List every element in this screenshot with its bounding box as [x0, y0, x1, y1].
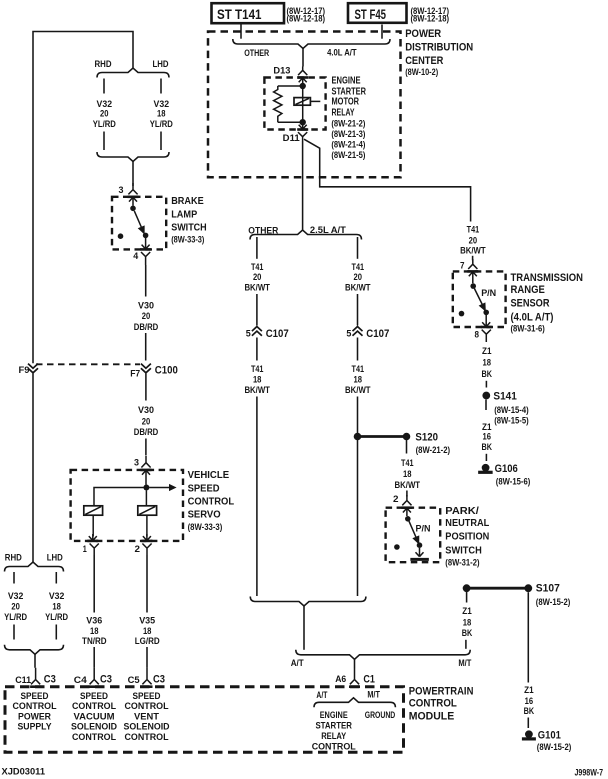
- splice S120 junction dot on T41: [354, 433, 362, 441]
- svg-text:C3: C3: [44, 674, 56, 686]
- svg-text:(8W-31-2): (8W-31-2): [445, 557, 479, 567]
- vent solenoid lead: [146, 515, 148, 536]
- svg-text:C107: C107: [266, 328, 289, 340]
- wire V30 from brake lamp switch to C100: [145, 265, 147, 297]
- wire stub from ST F45: [381, 25, 383, 39]
- servo internal wire to vacuum solenoid: [94, 488, 144, 506]
- svg-text:C5: C5: [128, 675, 140, 685]
- svg-text:P/N: P/N: [481, 288, 496, 298]
- pin 4 female terminal: [141, 252, 150, 265]
- svg-text:2: 2: [393, 494, 399, 504]
- svg-text:BK/WT: BK/WT: [345, 385, 371, 395]
- svg-text:LHD: LHD: [47, 552, 63, 562]
- svg-text:V30: V30: [138, 405, 154, 415]
- wire to PCM pin A6: [354, 659, 356, 668]
- vacuum solenoid lead: [92, 515, 94, 536]
- engine starter motor relay dashed box: [264, 78, 325, 130]
- wire Z1 to G106: [485, 454, 487, 461]
- svg-text:(8W-21-4): (8W-21-4): [331, 140, 365, 150]
- brake lamp switch contact dot (output): [143, 233, 149, 239]
- svg-text:18: 18: [354, 375, 363, 385]
- wire from T41 merge down: [303, 606, 305, 650]
- svg-text:BK: BK: [482, 369, 493, 379]
- svg-text:(8W-12-18): (8W-12-18): [287, 14, 326, 24]
- svg-text:18: 18: [90, 626, 99, 636]
- wire: top-left feed loop from PCM C11 up and over to RHD/LHD split: [33, 32, 133, 364]
- svg-text:18: 18: [157, 109, 166, 119]
- P/N switch arm: [409, 521, 419, 543]
- svg-text:5: 5: [346, 328, 351, 338]
- svg-text:2.5L A/T: 2.5L A/T: [310, 225, 346, 235]
- pin C5 female terminal: [142, 668, 151, 685]
- svg-text:V30: V30: [138, 301, 154, 311]
- wire stub into M/T brace end: [465, 640, 467, 649]
- TRS output contact dot: [483, 310, 489, 316]
- svg-text:CONTROL: CONTROL: [72, 732, 116, 742]
- powertrain control module dashed box: [5, 687, 404, 753]
- pin 4 male terminal arrow: [142, 238, 150, 249]
- svg-text:CONTROL: CONTROL: [312, 742, 356, 752]
- svg-text:BK: BK: [482, 442, 493, 452]
- pin D11 male terminal arrow: [299, 125, 307, 130]
- wire T41 right branch stub: [357, 237, 359, 259]
- wire from D11 to OTHER/2.5L split: [302, 141, 304, 230]
- svg-text:NEUTRAL: NEUTRAL: [445, 518, 490, 529]
- vent solenoid coil: [138, 506, 157, 515]
- relay coil stub lead: [310, 100, 320, 102]
- svg-text:18: 18: [143, 626, 152, 636]
- svg-text:XJD03011: XJD03011: [2, 767, 46, 777]
- servo internal arrow to speed control: [149, 487, 170, 489]
- svg-text:VEHICLE: VEHICLE: [188, 470, 230, 481]
- TRS common contact dot: [470, 283, 476, 289]
- svg-text:RELAY: RELAY: [321, 731, 346, 741]
- svg-text:SOLENOID: SOLENOID: [71, 722, 117, 732]
- pin 2 male terminal arrow: [143, 534, 151, 541]
- pin 8 female terminal: [482, 330, 491, 342]
- svg-text:(4.0L A/T): (4.0L A/T): [511, 311, 554, 323]
- svg-text:SPEED: SPEED: [188, 484, 220, 495]
- merge brace for T41 pair: [250, 597, 366, 607]
- wire T41 below C107 (left): [256, 338, 258, 361]
- svg-text:YL/RD: YL/RD: [4, 612, 27, 622]
- pin A6 female terminal: [350, 669, 359, 685]
- svg-text:T41: T41: [352, 364, 365, 374]
- svg-text:2: 2: [135, 544, 141, 554]
- wire RHD branch lower stub: [103, 132, 105, 151]
- svg-text:7: 7: [460, 261, 465, 271]
- svg-text:SPEED: SPEED: [80, 691, 108, 701]
- servo internal junction dot: [143, 485, 149, 491]
- svg-text:(8W-21-3): (8W-21-3): [331, 129, 365, 139]
- svg-text:C11: C11: [15, 675, 31, 685]
- pin D13 female terminal: [298, 67, 307, 76]
- svg-text:SPEED: SPEED: [21, 691, 49, 701]
- connector C107 chevrons (left): [252, 327, 262, 336]
- wire V35 from servo pin 2: [146, 555, 148, 613]
- wire T41 into C107 (right): [357, 294, 359, 326]
- split brace inside PCM: [314, 698, 395, 708]
- svg-text:J998W-7: J998W-7: [575, 768, 604, 778]
- svg-text:20: 20: [253, 272, 262, 282]
- svg-text:20: 20: [142, 311, 151, 321]
- svg-text:20: 20: [11, 602, 20, 612]
- svg-text:T41: T41: [401, 458, 414, 468]
- svg-text:YL/RD: YL/RD: [93, 119, 116, 129]
- wire LHD lower branch upper stub: [55, 572, 57, 584]
- P/N switch case ground arrow: [416, 548, 424, 557]
- svg-text:Z1: Z1: [462, 606, 472, 616]
- relay resistor bottom lead: [278, 121, 303, 123]
- svg-text:BK/WT: BK/WT: [345, 283, 371, 293]
- svg-text:V32: V32: [49, 591, 65, 601]
- svg-text:ST F45: ST F45: [355, 6, 387, 22]
- pin C4 female terminal: [90, 668, 99, 685]
- svg-text:C100: C100: [155, 364, 178, 376]
- svg-text:BK: BK: [524, 706, 535, 716]
- relay coil wire: [302, 86, 304, 122]
- svg-text:ENGINE: ENGINE: [332, 76, 361, 87]
- pin 1 male terminal arrow: [89, 534, 97, 541]
- wire RHD lower branch upper stub: [13, 572, 15, 584]
- connector F7 chevrons: [141, 364, 151, 373]
- svg-text:YL/RD: YL/RD: [150, 119, 173, 129]
- svg-text:SUPPLY: SUPPLY: [18, 722, 52, 732]
- svg-text:(8W-33-3): (8W-33-3): [171, 234, 204, 244]
- svg-text:BK/WT: BK/WT: [460, 245, 486, 255]
- pin 7 bar on TRS box edge: [467, 270, 478, 273]
- brake lamp switch open contact dot: [118, 233, 124, 239]
- pin 7 female terminal: [468, 259, 477, 269]
- vacuum solenoid coil: [84, 506, 103, 515]
- P/N switch common contact dot: [405, 516, 411, 522]
- svg-text:A/T: A/T: [291, 658, 304, 668]
- svg-text:S141: S141: [493, 390, 516, 402]
- svg-text:3: 3: [134, 457, 139, 467]
- svg-text:18: 18: [253, 375, 262, 385]
- svg-text:20: 20: [100, 109, 109, 119]
- wire RHD lower branch lower stub: [13, 625, 15, 640]
- pin D11 bar on relay box edge: [297, 128, 308, 131]
- svg-text:BK: BK: [462, 628, 473, 638]
- pin A6 bar on PCM edge: [349, 685, 360, 688]
- pin 2 bar on P/N box edge: [401, 506, 412, 509]
- relay top junction dot: [300, 83, 306, 89]
- svg-text:T41: T41: [251, 364, 264, 374]
- pin 3 bar on servo box edge: [141, 469, 152, 472]
- pin 7 male terminal arrow: [469, 272, 477, 284]
- wire: feed loop continues below F9: [32, 373, 34, 562]
- svg-text:V32: V32: [154, 99, 170, 109]
- park/neutral position switch dashed box: [386, 508, 441, 563]
- wire from merge brace to brake lamp switch pin 3: [132, 162, 134, 187]
- svg-text:SENSOR: SENSOR: [511, 298, 550, 310]
- svg-text:(8W-21-5): (8W-21-5): [331, 150, 365, 160]
- power distribution center dashed box: [208, 32, 401, 178]
- svg-text:5: 5: [246, 328, 251, 338]
- transmission range sensor dashed box: [453, 271, 506, 327]
- TRS open contact dot: [459, 311, 465, 317]
- svg-text:MODULE: MODULE: [409, 711, 455, 723]
- wire branch from D11 to transmission range sensor: [304, 139, 471, 221]
- svg-text:VACUUM: VACUUM: [74, 711, 115, 721]
- pin 3 male terminal arrow (servo): [142, 470, 150, 484]
- svg-text:20: 20: [142, 417, 151, 427]
- P/N switch case ground bar: [410, 558, 429, 561]
- svg-text:GROUND: GROUND: [365, 710, 396, 720]
- vent solenoid feed: [145, 491, 147, 506]
- pin 8 male terminal arrow: [482, 315, 490, 327]
- pin C4 bar on PCM edge: [89, 685, 100, 688]
- svg-text:SWITCH: SWITCH: [445, 545, 482, 556]
- pin 3 female terminal: [128, 183, 137, 194]
- svg-text:Z1: Z1: [524, 685, 534, 695]
- svg-text:BRAKE: BRAKE: [171, 196, 204, 207]
- svg-text:S120: S120: [415, 431, 438, 443]
- svg-text:(8W-15-2): (8W-15-2): [536, 597, 571, 607]
- svg-text:20: 20: [469, 236, 478, 246]
- svg-text:STARTER: STARTER: [315, 721, 352, 731]
- wire T41 into C107 (left): [256, 294, 258, 326]
- wire V30 below C100: [145, 374, 147, 401]
- svg-text:SOLENOID: SOLENOID: [124, 722, 170, 732]
- splice S141 dot: [482, 392, 490, 400]
- svg-text:BK/WT: BK/WT: [395, 480, 421, 490]
- svg-text:(8W-15-2): (8W-15-2): [537, 742, 572, 752]
- vehicle speed control servo dashed box: [71, 470, 183, 541]
- svg-text:S107: S107: [536, 582, 560, 594]
- svg-text:C107: C107: [366, 328, 389, 340]
- merge brace OTHER / 4.0L A/T: [233, 39, 390, 49]
- svg-text:M/T: M/T: [458, 658, 471, 668]
- wire from brace to relay pin D13: [302, 49, 304, 67]
- svg-text:16: 16: [483, 431, 492, 441]
- svg-text:C1: C1: [363, 674, 375, 686]
- pin D13 bar on relay box edge: [297, 76, 308, 79]
- svg-text:ST T141: ST T141: [217, 6, 262, 22]
- wire below S141: [485, 400, 487, 411]
- pin 2 bar on servo box edge: [141, 540, 152, 543]
- fuse callout box ST F45: [348, 3, 407, 23]
- wire LHD branch lower stub: [160, 132, 162, 151]
- svg-text:8: 8: [475, 330, 480, 340]
- svg-text:STARTER: STARTER: [332, 86, 367, 97]
- svg-text:G101: G101: [538, 730, 561, 742]
- wire T41 left down to A/T merge: [256, 397, 258, 597]
- svg-text:T41: T41: [352, 262, 365, 272]
- svg-text:RHD: RHD: [5, 552, 22, 562]
- svg-text:18: 18: [52, 602, 61, 612]
- svg-text:3: 3: [119, 185, 124, 195]
- svg-text:TRANSMISSION: TRANSMISSION: [511, 272, 584, 284]
- svg-text:BK/WT: BK/WT: [244, 283, 270, 293]
- svg-text:LHD: LHD: [153, 59, 169, 69]
- svg-text:DB/RD: DB/RD: [134, 322, 159, 332]
- pin C5 bar on PCM edge: [142, 685, 153, 688]
- pin 1 bar on servo box edge: [87, 540, 98, 543]
- wire V30 into C100: [145, 333, 147, 361]
- split brace OTHER / 2.5L A/T: [250, 230, 362, 240]
- svg-text:SWITCH: SWITCH: [171, 223, 207, 234]
- svg-text:(8W-33-3): (8W-33-3): [188, 522, 223, 532]
- svg-text:RANGE: RANGE: [511, 284, 546, 296]
- wire T41 right down to A/T merge: [357, 397, 359, 597]
- svg-text:(8W-15-5): (8W-15-5): [494, 415, 529, 425]
- svg-text:F7: F7: [130, 368, 140, 378]
- wire Z1 18 BK from S107 to M/T merge: [466, 588, 468, 602]
- wire V36 from servo pin 1: [93, 555, 95, 613]
- wire into P/N switch pin 2: [406, 491, 408, 497]
- svg-text:16: 16: [525, 696, 534, 706]
- svg-text:CENTER: CENTER: [405, 55, 443, 67]
- svg-text:P/N: P/N: [416, 524, 431, 534]
- svg-text:LAMP: LAMP: [171, 209, 197, 220]
- svg-text:SERVO: SERVO: [188, 510, 221, 521]
- svg-text:D13: D13: [273, 66, 290, 76]
- svg-text:Z1: Z1: [482, 346, 492, 356]
- svg-text:(8W-15-6): (8W-15-6): [496, 477, 531, 487]
- wire V35 to PCM C5: [146, 647, 148, 668]
- relay bottom junction dot: [300, 119, 306, 125]
- wire T41 left branch stub: [256, 237, 258, 259]
- svg-text:(8W-15-4): (8W-15-4): [494, 405, 529, 415]
- svg-text:CONTROL: CONTROL: [188, 496, 235, 507]
- svg-text:C3: C3: [100, 674, 112, 686]
- wire Z1 16 BK from S107 to G101: [527, 592, 529, 682]
- svg-text:(8W-31-6): (8W-31-6): [511, 323, 545, 333]
- ground G101 symbol: [525, 730, 533, 738]
- svg-text:18: 18: [403, 469, 412, 479]
- svg-text:CONTROL: CONTROL: [13, 701, 57, 711]
- splice S107 link line: [467, 587, 529, 590]
- wire RHD branch upper stub: [103, 79, 105, 94]
- pin 2 female terminal (P/N switch): [402, 495, 411, 505]
- merge brace to PCM C11: [5, 645, 64, 655]
- pin 2 female terminal: [142, 544, 151, 556]
- splice S120 dot: [403, 433, 411, 441]
- wire LHD branch upper stub: [160, 79, 162, 94]
- svg-text:20: 20: [354, 272, 363, 282]
- splice S107 left dot: [463, 584, 471, 592]
- wire Z1 to S141: [485, 381, 487, 388]
- brake lamp switch S1 dashed box: [112, 197, 166, 250]
- connector C100 dashed link line: [36, 363, 140, 365]
- wire T41 from S120 to P/N switch: [406, 440, 408, 454]
- svg-text:M/T: M/T: [367, 689, 380, 699]
- split brace RHD/LHD (top): [97, 68, 169, 78]
- svg-text:BK/WT: BK/WT: [244, 385, 270, 395]
- svg-text:1: 1: [83, 544, 87, 554]
- svg-text:F9: F9: [19, 365, 30, 375]
- svg-text:CONTROL: CONTROL: [72, 701, 116, 711]
- svg-text:OTHER: OTHER: [248, 225, 278, 235]
- pin 2 male terminal arrow (P/N): [403, 508, 411, 516]
- merge brace to brake lamp switch feed: [97, 152, 169, 162]
- pin C11 female terminal: [31, 668, 40, 685]
- svg-text:C4: C4: [74, 675, 88, 685]
- svg-text:YL/RD: YL/RD: [45, 612, 68, 622]
- pin 3 bar on box edge: [128, 196, 139, 199]
- svg-text:CONTROL: CONTROL: [409, 698, 457, 710]
- svg-text:18: 18: [483, 358, 492, 368]
- split brace RHD/LHD (bottom): [5, 562, 64, 572]
- wire stub from ST T141: [240, 25, 242, 39]
- pin 3 male terminal arrow: [129, 197, 137, 205]
- splice S120 link line: [358, 435, 407, 438]
- TRS switch arm: [474, 289, 485, 311]
- svg-text:POWER: POWER: [18, 711, 51, 721]
- relay resistor top lead: [278, 85, 303, 87]
- svg-text:4: 4: [133, 251, 139, 261]
- svg-text:(8W-21-2): (8W-21-2): [331, 118, 365, 128]
- svg-text:A6: A6: [335, 674, 346, 684]
- svg-text:(8W-12-18): (8W-12-18): [411, 14, 450, 24]
- splice S107 right dot: [524, 584, 532, 592]
- pin 3 female terminal (servo): [141, 456, 150, 468]
- svg-text:V36: V36: [86, 616, 102, 626]
- wire into TRS pin 7: [472, 256, 474, 260]
- svg-text:DISTRIBUTION: DISTRIBUTION: [405, 41, 473, 53]
- svg-text:T41: T41: [251, 262, 264, 272]
- merge brace A/T and M/T: [296, 650, 470, 660]
- svg-text:SPEED: SPEED: [133, 691, 161, 701]
- svg-text:DB/RD: DB/RD: [134, 427, 159, 437]
- wire into G101: [527, 718, 529, 729]
- svg-text:V35: V35: [139, 616, 155, 626]
- ground G106 symbol: [482, 464, 490, 472]
- svg-text:G106: G106: [495, 463, 518, 475]
- connector C107 chevrons (right): [353, 327, 363, 336]
- pin 4 bar on box edge: [140, 248, 151, 251]
- pin 8 bar on TRS box edge: [481, 326, 492, 329]
- svg-text:POWERTRAIN: POWERTRAIN: [409, 685, 474, 697]
- svg-text:ENGINE: ENGINE: [320, 710, 348, 720]
- svg-text:RHD: RHD: [95, 59, 112, 69]
- svg-text:18: 18: [463, 617, 472, 627]
- svg-text:C3: C3: [153, 674, 165, 686]
- svg-text:V32: V32: [97, 99, 113, 109]
- wire LHD lower branch lower stub: [55, 625, 57, 640]
- resistor (relay coil suppression): [274, 86, 282, 122]
- svg-text:MOTOR: MOTOR: [332, 97, 360, 108]
- pin C11 bar on PCM edge: [30, 685, 41, 688]
- svg-text:V32: V32: [8, 591, 24, 601]
- wire V36 to PCM C4: [93, 647, 95, 668]
- svg-text:RELAY: RELAY: [332, 108, 355, 119]
- svg-text:POWER: POWER: [405, 28, 441, 40]
- P/N switch output contact dot: [417, 542, 423, 548]
- svg-text:VENT: VENT: [134, 711, 159, 721]
- wire V30 to servo pin 3: [145, 439, 147, 456]
- svg-text:A/T: A/T: [316, 690, 327, 700]
- connector F9 chevrons on feed wire: [28, 364, 38, 373]
- pin 1 female terminal: [90, 544, 99, 556]
- svg-text:(8W-10-2): (8W-10-2): [405, 67, 438, 77]
- svg-text:POSITION: POSITION: [445, 532, 489, 543]
- relay coil: [294, 98, 310, 106]
- pin D11 female terminal: [298, 132, 307, 141]
- wire to PCM pin C11: [34, 654, 36, 668]
- svg-text:4.0L A/T: 4.0L A/T: [327, 48, 357, 58]
- brake lamp switch contact dot (common): [130, 206, 136, 212]
- pin D13 male terminal arrow: [299, 78, 307, 84]
- svg-text:D11: D11: [283, 133, 300, 143]
- svg-text:(8W-21-2): (8W-21-2): [416, 445, 451, 455]
- svg-text:LG/RD: LG/RD: [135, 636, 160, 646]
- svg-text:CONTROL: CONTROL: [125, 701, 169, 711]
- svg-text:T41: T41: [467, 225, 480, 235]
- svg-text:TN/RD: TN/RD: [82, 636, 107, 646]
